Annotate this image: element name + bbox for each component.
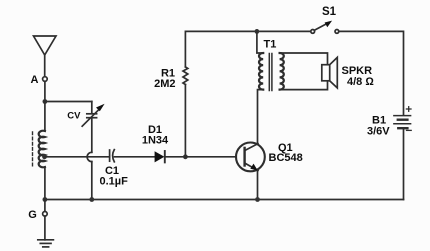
switch S1 <box>311 21 339 34</box>
transformer T1 secondary winding <box>280 53 284 90</box>
transformer T1 primary winding <box>259 53 263 90</box>
svg-text:S1: S1 <box>322 6 337 18</box>
ground rail wire <box>45 199 404 201</box>
wire CV bottom to ground rail <box>91 162 93 200</box>
ground <box>38 216 54 247</box>
svg-text:G: G <box>28 209 37 221</box>
wire D1 to base node <box>165 156 186 158</box>
svg-text:BC548: BC548 <box>269 152 303 164</box>
svg-text:1N34: 1N34 <box>142 134 169 146</box>
node G <box>28 200 47 222</box>
junction CV / ground rail <box>89 197 94 202</box>
wire junction down to coil top <box>44 102 46 132</box>
svg-text:3/6V: 3/6V <box>367 126 390 138</box>
speaker SPKR <box>322 57 338 88</box>
wire R1 top to positive rail <box>185 31 310 67</box>
junction antenna/coil/CV <box>43 99 48 104</box>
wire base node up to R1 <box>184 85 186 157</box>
antenna <box>34 36 57 77</box>
svg-text:2M2: 2M2 <box>154 78 175 90</box>
wire T1 primary bottom to Q1 collector <box>258 90 264 144</box>
wire Q1 emitter to ground rail <box>257 171 259 200</box>
transistor Q1 <box>236 143 265 172</box>
junction T1 primary / positive rail <box>255 29 260 34</box>
wire S1 to battery top <box>339 31 404 115</box>
battery minus sign <box>407 129 412 131</box>
variable capacitor CV <box>82 102 104 153</box>
wire hop (CV branch crosses tap wire, no connection) <box>87 152 92 161</box>
battery plus sign <box>406 107 411 112</box>
svg-text:4/8 Ω: 4/8 Ω <box>347 76 374 88</box>
wire junction to CV top <box>45 101 92 103</box>
svg-text:B1: B1 <box>372 114 386 126</box>
svg-text:A: A <box>31 74 39 86</box>
wire rail down to T1 primary top <box>257 31 263 53</box>
svg-text:CV: CV <box>67 111 81 122</box>
node A <box>31 74 48 86</box>
coil tap junction <box>42 154 47 159</box>
wire C1 to D1 <box>115 156 155 158</box>
wire base node to Q1 base <box>185 156 236 158</box>
svg-text:T1: T1 <box>264 38 277 50</box>
wire A-node to tuned-circuit junction <box>44 81 46 101</box>
wire T1 secondary bottom to speaker <box>280 81 328 90</box>
junction coil / ground rail <box>43 197 48 202</box>
diode D1 <box>155 151 165 162</box>
wire coil bottom to ground rail <box>44 167 46 200</box>
transformer T1 core <box>269 54 272 91</box>
svg-text:0.1µF: 0.1µF <box>100 175 129 187</box>
resistor R1 <box>183 67 188 85</box>
wire coil tap to C1 <box>45 156 110 158</box>
wire T1 secondary top to speaker <box>280 53 328 65</box>
battery B1 <box>394 116 411 129</box>
junction Q1 emitter / ground rail <box>255 197 260 202</box>
ferrite core (dashed) <box>32 132 34 168</box>
capacitor C1 <box>110 150 115 162</box>
wire battery bottom to ground rail <box>403 128 405 199</box>
junction D1 / R1 / base <box>183 154 188 159</box>
coil L1 <box>39 131 45 168</box>
